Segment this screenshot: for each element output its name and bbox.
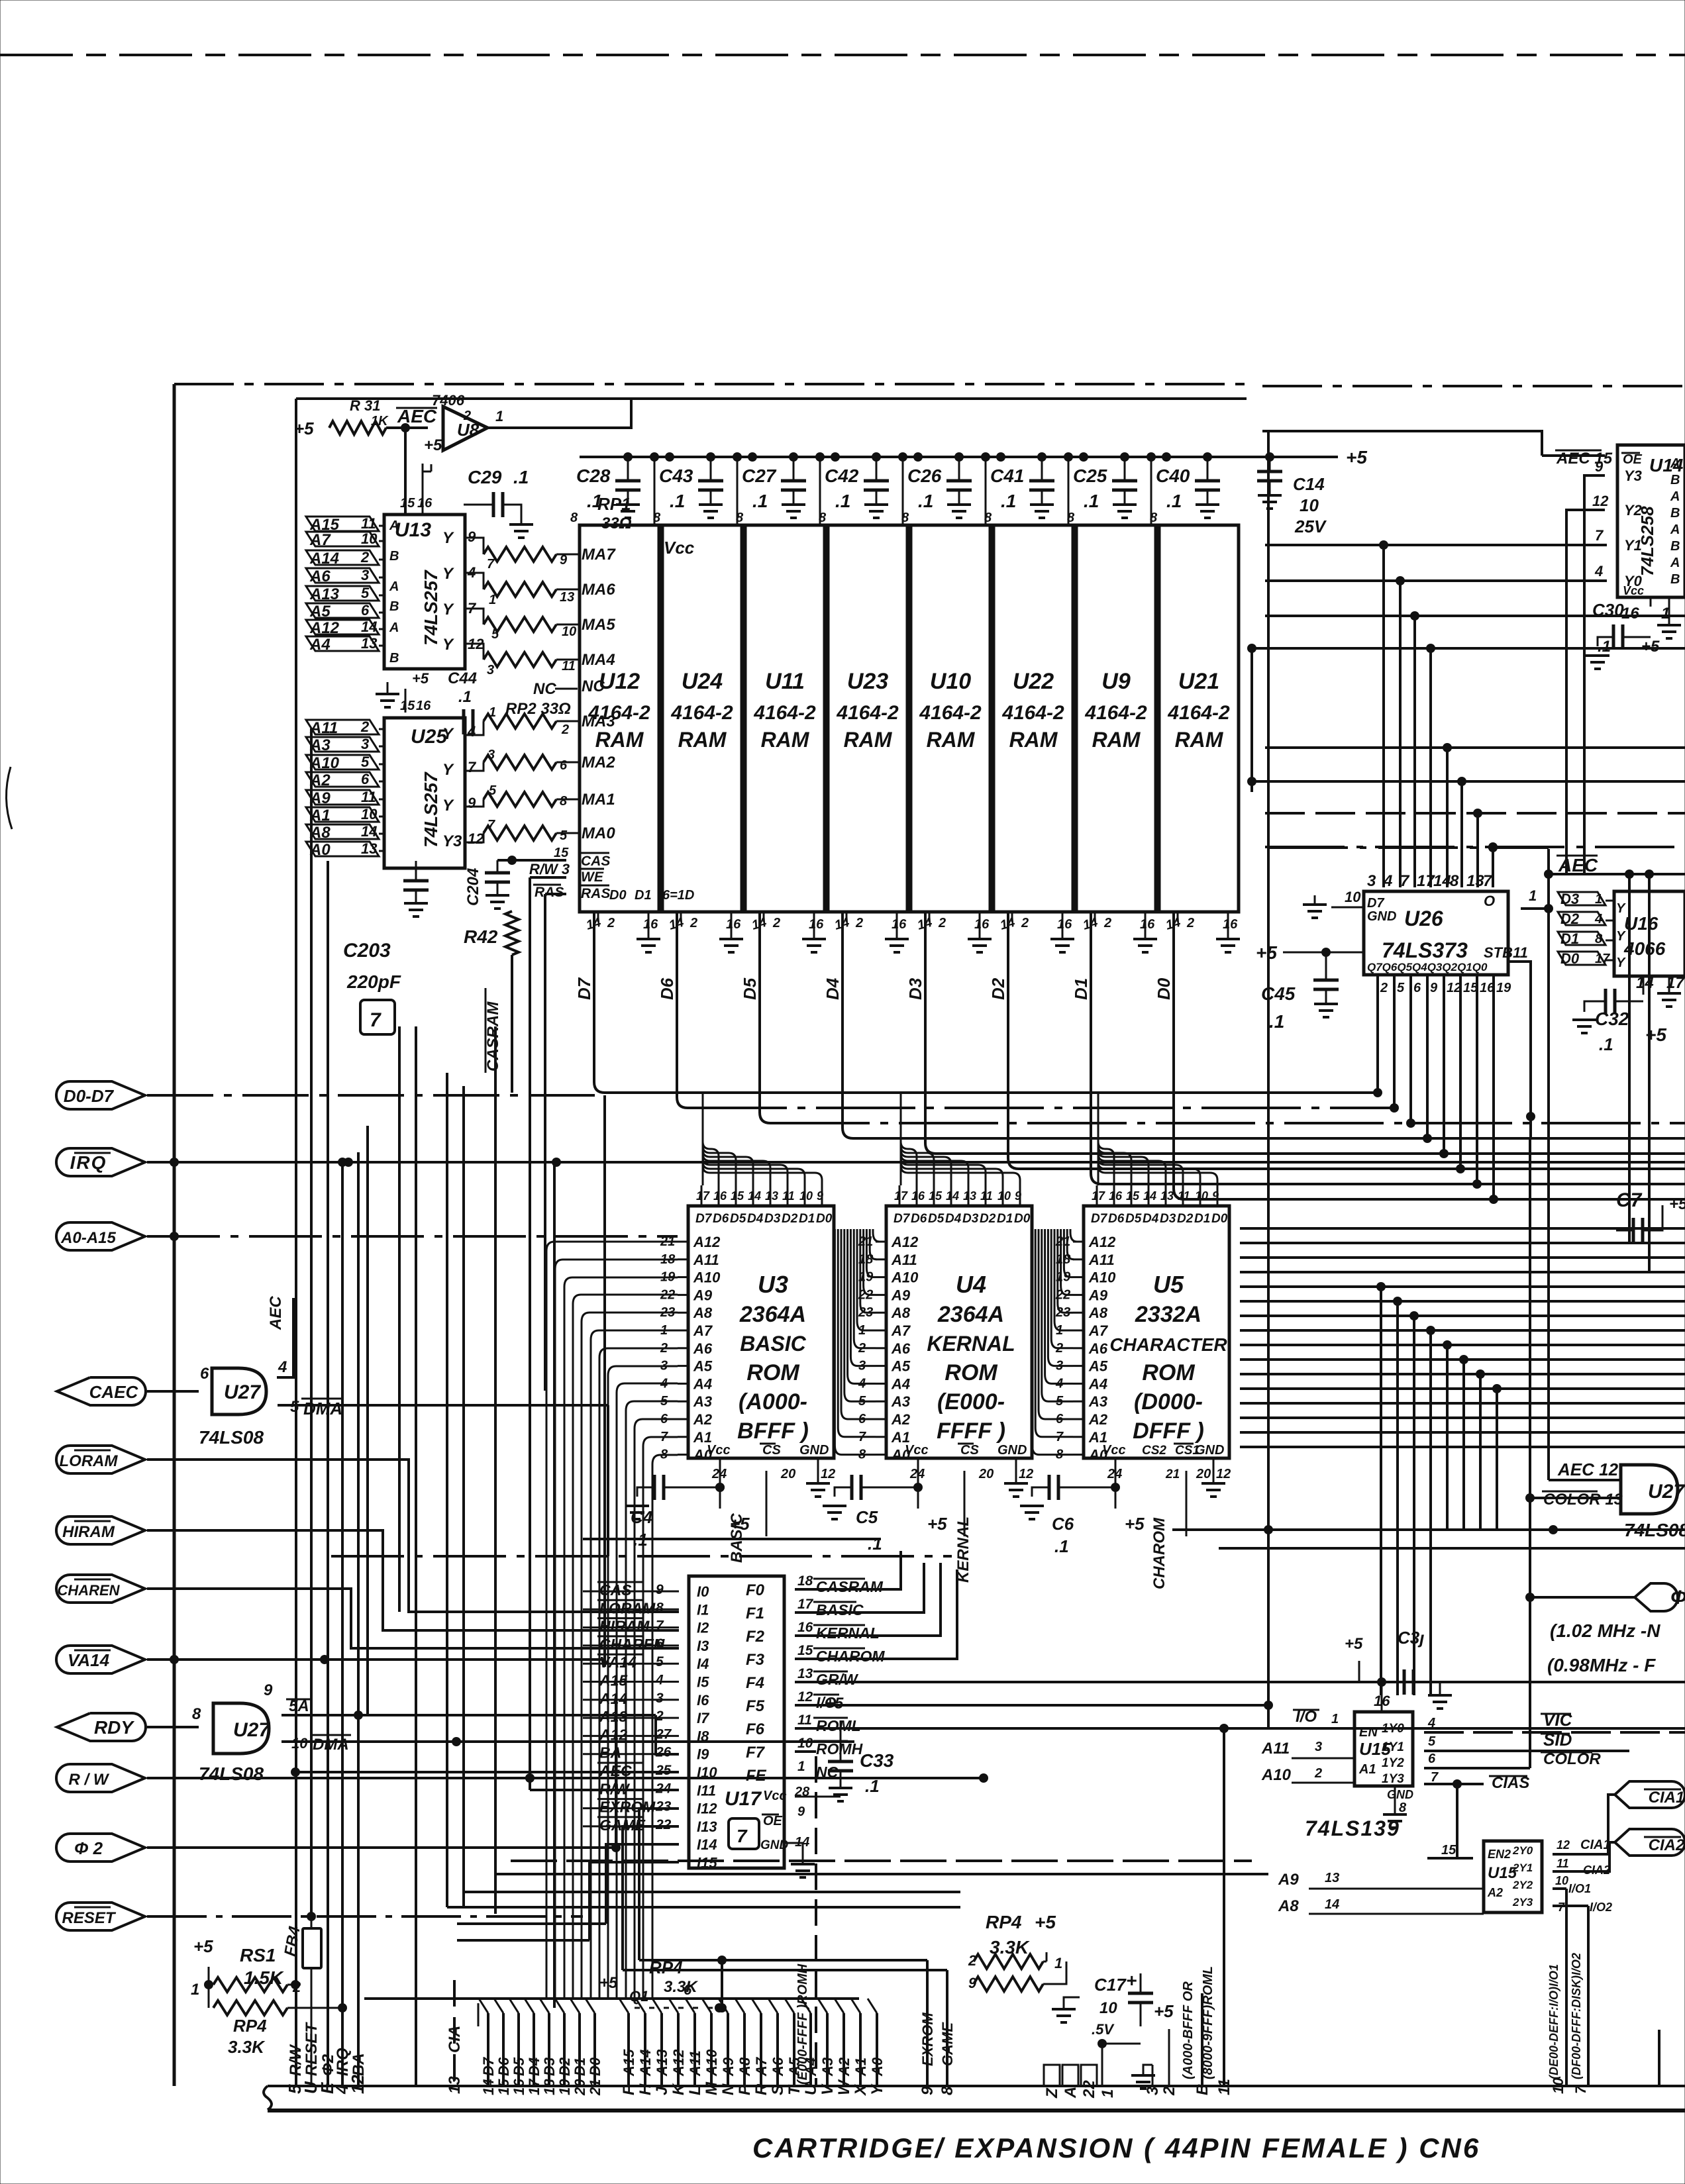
latch U26 74LS373 xyxy=(1364,891,1508,975)
svg-text:+5: +5 xyxy=(193,1936,213,1956)
svg-text:FFFF ): FFFF ) xyxy=(937,1418,1005,1444)
svg-text:4164-2: 4164-2 xyxy=(919,702,982,724)
svg-text:D0: D0 xyxy=(816,1212,833,1226)
U15 second half outputs CIA1 CIA2 I/O1 I/O2 xyxy=(1542,1849,1553,1860)
svg-text:C27: C27 xyxy=(742,466,777,486)
svg-text:AEC 12: AEC 12 xyxy=(1557,1460,1619,1479)
svg-text:I14: I14 xyxy=(697,1836,717,1853)
svg-text:C45: C45 xyxy=(1261,983,1296,1004)
svg-text:2: 2 xyxy=(360,549,370,566)
svg-text:.1: .1 xyxy=(513,467,529,487)
svg-text:21: 21 xyxy=(587,2079,603,2096)
svg-text:ROM: ROM xyxy=(746,1360,799,1385)
svg-text:27: 27 xyxy=(655,1726,672,1742)
svg-text:A9: A9 xyxy=(1278,1871,1299,1889)
svg-text:2: 2 xyxy=(1380,981,1388,995)
connector CN6 bar xyxy=(264,2086,1685,2110)
svg-text:8: 8 xyxy=(736,511,744,525)
signal flag CHAREN xyxy=(56,1575,145,1603)
svg-text:16: 16 xyxy=(1621,605,1639,622)
svg-text:10: 10 xyxy=(997,1189,1011,1203)
svg-text:.1: .1 xyxy=(1001,491,1016,511)
svg-text:I7: I7 xyxy=(697,1710,710,1726)
svg-text:3.3K: 3.3K xyxy=(228,2037,266,2057)
svg-text:D2: D2 xyxy=(782,1212,798,1226)
svg-text:(DE00-DEFF:I/O)I/O1: (DE00-DEFF:I/O)I/O1 xyxy=(1547,1964,1560,2079)
left frame vertical wire xyxy=(173,384,176,2086)
svg-text:+5: +5 xyxy=(424,436,442,454)
svg-text:3: 3 xyxy=(1367,872,1376,890)
svg-text:A8: A8 xyxy=(1278,1897,1299,1915)
svg-text:15: 15 xyxy=(400,699,415,713)
svg-text:RS1: RS1 xyxy=(240,1945,276,1965)
vertical bus wire RESET to connector xyxy=(311,1916,312,1932)
svg-text:A11: A11 xyxy=(1088,1252,1115,1268)
svg-text:D0: D0 xyxy=(1211,1212,1228,1226)
svg-text:A7: A7 xyxy=(753,2056,770,2077)
svg-text:GND: GND xyxy=(799,1443,829,1458)
svg-text:4164-2: 4164-2 xyxy=(1001,702,1064,724)
svg-text:4: 4 xyxy=(467,723,476,740)
svg-text:.1: .1 xyxy=(835,491,850,511)
svg-text:6=1D: 6=1D xyxy=(662,888,694,903)
svg-text:13: 13 xyxy=(1160,1189,1174,1203)
svg-text:MA4: MA4 xyxy=(582,651,615,669)
svg-text:13: 13 xyxy=(765,1189,778,1203)
wire WE into U12 xyxy=(530,876,566,879)
svg-text:5: 5 xyxy=(656,1654,664,1669)
svg-text:1: 1 xyxy=(1529,887,1537,904)
svg-text:EN2: EN2 xyxy=(1488,1848,1511,1861)
svg-text:8: 8 xyxy=(939,2086,956,2095)
svg-text:Vcc: Vcc xyxy=(707,1443,731,1458)
address fan bundle between U3 and U4 xyxy=(835,1229,880,1455)
svg-text:U11: U11 xyxy=(765,669,805,694)
ROM U5 2332A CHARACTER xyxy=(1055,1093,1231,1536)
svg-text:(D000-: (D000- xyxy=(1134,1389,1203,1415)
svg-text:16: 16 xyxy=(726,917,741,932)
vertical net labels R/W RESET PHI2 IRQ BA at connector xyxy=(287,2022,368,2076)
svg-text:I1: I1 xyxy=(697,1601,709,1618)
svg-text:R 31: R 31 xyxy=(350,397,380,414)
svg-text:A5: A5 xyxy=(1088,1358,1108,1375)
signal flag R/W xyxy=(56,1764,145,1792)
svg-text:AEC: AEC xyxy=(267,1296,285,1330)
svg-text:I15: I15 xyxy=(697,1855,717,1871)
svg-text:.1: .1 xyxy=(670,491,685,511)
svg-text:A13: A13 xyxy=(654,2050,670,2077)
svg-text:19: 19 xyxy=(1496,981,1511,995)
svg-text:D1: D1 xyxy=(799,1212,815,1226)
svg-text:21: 21 xyxy=(1165,1467,1180,1481)
svg-text:16: 16 xyxy=(511,2079,527,2095)
svg-text:25: 25 xyxy=(655,1763,672,1778)
svg-text:2: 2 xyxy=(855,916,863,930)
svg-text:R/W 3: R/W 3 xyxy=(529,861,570,877)
svg-text:3: 3 xyxy=(361,736,369,752)
RAM bottom pin numbers and grounds xyxy=(585,912,1240,952)
svg-text:D3: D3 xyxy=(962,1212,979,1226)
svg-text:RAS: RAS xyxy=(535,885,564,900)
svg-text:D3: D3 xyxy=(541,2058,558,2076)
svg-text:+5: +5 xyxy=(1645,1024,1666,1045)
address bus junction dots and vertical drops xyxy=(1376,1282,1502,1695)
svg-text:5: 5 xyxy=(560,828,568,843)
svg-text:C17: C17 xyxy=(1094,1975,1127,1995)
svg-text:2364A: 2364A xyxy=(937,1302,1004,1327)
svg-text:11: 11 xyxy=(361,515,376,532)
svg-text:2: 2 xyxy=(772,916,780,930)
svg-text:9: 9 xyxy=(264,1681,273,1699)
svg-text:16: 16 xyxy=(892,917,907,932)
svg-text:9: 9 xyxy=(1430,981,1438,995)
long wire y2324 xyxy=(583,1538,881,1540)
svg-text:R42: R42 xyxy=(464,926,498,947)
svg-text:I5: I5 xyxy=(697,1674,709,1691)
svg-text:12: 12 xyxy=(821,1467,835,1481)
svg-text:CIA1: CIA1 xyxy=(1580,1838,1611,1852)
svg-text:D1: D1 xyxy=(635,888,652,903)
svg-text:1: 1 xyxy=(1595,892,1602,907)
svg-text:A10: A10 xyxy=(309,754,340,772)
wire R/W xyxy=(147,1777,980,1779)
svg-text:16: 16 xyxy=(1140,917,1155,932)
svg-text:13: 13 xyxy=(1325,1871,1339,1885)
svg-text:2: 2 xyxy=(938,916,946,930)
ROM U3 2364A BASIC xyxy=(660,1093,835,1536)
svg-text:+5: +5 xyxy=(1154,2001,1174,2021)
svg-text:8: 8 xyxy=(901,511,909,525)
svg-text:A2: A2 xyxy=(836,2057,852,2077)
svg-text:I13: I13 xyxy=(697,1818,717,1835)
svg-text:D7: D7 xyxy=(574,977,594,1000)
svg-text:A11: A11 xyxy=(891,1252,917,1268)
U14 input letters A/B right edge xyxy=(1670,456,1680,587)
svg-text:12: 12 xyxy=(468,830,484,847)
wires left buses bend into U17 rows xyxy=(0,0,1,1)
svg-text:A6: A6 xyxy=(309,568,331,585)
svg-text:D7: D7 xyxy=(1091,1212,1108,1226)
svg-text:C25: C25 xyxy=(1073,466,1107,486)
wire U8 output to top rail xyxy=(487,399,631,428)
svg-text:8: 8 xyxy=(1450,872,1459,890)
svg-text:10: 10 xyxy=(1195,1189,1208,1203)
svg-text:5: 5 xyxy=(290,1398,299,1416)
svg-text:+5: +5 xyxy=(599,1974,618,1992)
svg-text:2364A: 2364A xyxy=(739,1302,806,1327)
svg-text:15: 15 xyxy=(731,1189,744,1203)
svg-text:8: 8 xyxy=(570,511,578,525)
svg-text:4066: 4066 xyxy=(1623,938,1666,959)
U17 input pins I0-I15 with labels xyxy=(583,1581,717,1871)
svg-text:22: 22 xyxy=(1080,2080,1098,2099)
svg-text:A8: A8 xyxy=(891,1305,911,1321)
svg-text:10: 10 xyxy=(562,624,576,639)
resistor RP4 3.3K (pin2) xyxy=(213,2001,287,2015)
wire RDY to U27b xyxy=(147,1726,199,1728)
svg-text:F1: F1 xyxy=(746,1605,764,1622)
svg-text:14: 14 xyxy=(1143,1189,1156,1203)
svg-text:MA2: MA2 xyxy=(582,754,615,771)
svg-text:.1: .1 xyxy=(752,491,768,511)
svg-text:5: 5 xyxy=(1428,1734,1436,1749)
svg-text:Y: Y xyxy=(442,797,454,815)
svg-text:14: 14 xyxy=(1636,974,1654,992)
svg-text:U3: U3 xyxy=(758,1271,788,1298)
svg-text:Y: Y xyxy=(1616,956,1626,970)
svg-text:1: 1 xyxy=(797,1759,805,1774)
svg-text:A10: A10 xyxy=(891,1269,919,1286)
svg-text:3: 3 xyxy=(1315,1740,1322,1754)
svg-text:16: 16 xyxy=(643,917,658,932)
svg-text:11: 11 xyxy=(562,659,576,673)
svg-text:A9: A9 xyxy=(1088,1287,1108,1303)
svg-text:EN: EN xyxy=(1359,1725,1378,1740)
svg-text:KERNAL: KERNAL xyxy=(927,1332,1015,1356)
svg-text:8: 8 xyxy=(1150,511,1158,525)
svg-text:12: 12 xyxy=(797,1689,813,1705)
svg-text:4164-2: 4164-2 xyxy=(836,702,899,724)
svg-text:1: 1 xyxy=(495,408,503,424)
svg-text:A1: A1 xyxy=(852,2058,869,2077)
svg-text:B: B xyxy=(1670,539,1680,554)
svg-text:ROML: ROML xyxy=(816,1717,861,1734)
svg-text:A14: A14 xyxy=(637,2050,654,2077)
svg-text:A4: A4 xyxy=(693,1375,712,1392)
svg-text:9: 9 xyxy=(560,553,568,568)
svg-text:(0.98MHz - F: (0.98MHz - F xyxy=(1547,1655,1656,1675)
svg-text:7: 7 xyxy=(468,759,477,775)
svg-text:A4: A4 xyxy=(1088,1375,1107,1392)
svg-text:Vcc: Vcc xyxy=(905,1443,929,1458)
svg-text:BASIC: BASIC xyxy=(816,1601,864,1618)
svg-text:GND: GND xyxy=(1367,909,1396,924)
svg-text:A11: A11 xyxy=(309,719,338,737)
svg-text:A3: A3 xyxy=(891,1393,910,1410)
svg-text:16: 16 xyxy=(713,1189,727,1203)
svg-text:Vcc: Vcc xyxy=(1102,1443,1126,1458)
svg-text:CASRAM: CASRAM xyxy=(484,1001,502,1071)
svg-text:RAM: RAM xyxy=(927,728,976,752)
svg-text:Φ 2: Φ 2 xyxy=(74,1838,103,1858)
svg-text:A7: A7 xyxy=(693,1322,713,1339)
svg-text:U21: U21 xyxy=(1178,669,1219,694)
svg-text:BASIC: BASIC xyxy=(740,1332,806,1356)
connector address pins A15-A0 (F-Y) xyxy=(619,1999,886,2097)
U25 input label stack A11/A3/A10/A2/A9/A1/A8/A0 xyxy=(306,719,384,859)
svg-text:6: 6 xyxy=(1413,981,1421,995)
svg-text:10: 10 xyxy=(1345,889,1361,905)
svg-text:WE: WE xyxy=(581,869,604,885)
capacitor C6 .1 and +5 at U5 xyxy=(1049,1475,1058,1500)
svg-text:8: 8 xyxy=(1595,932,1603,946)
svg-text:CHAROM: CHAROM xyxy=(1150,1517,1168,1589)
svg-text:(DF00-DFFF:DISK)I/O2: (DF00-DFFF:DISK)I/O2 xyxy=(1570,1953,1583,2079)
svg-text:U26: U26 xyxy=(1404,907,1443,930)
svg-text:14: 14 xyxy=(480,2079,497,2095)
svg-text:A10: A10 xyxy=(703,2049,720,2077)
svg-text:STB: STB xyxy=(1484,944,1513,961)
svg-text:15: 15 xyxy=(1441,1843,1456,1858)
svg-text:U24: U24 xyxy=(682,669,723,694)
svg-text:A13: A13 xyxy=(309,585,340,603)
svg-text:4: 4 xyxy=(1383,872,1392,890)
signal flag CIA2 xyxy=(1615,1829,1685,1856)
svg-text:7: 7 xyxy=(1595,527,1604,544)
svg-text:RDY: RDY xyxy=(94,1717,134,1738)
signal flag VA14 xyxy=(56,1646,145,1673)
svg-text:S: S xyxy=(769,2085,787,2095)
svg-text:8: 8 xyxy=(1399,1801,1407,1815)
svg-text:14: 14 xyxy=(748,1189,761,1203)
svg-text:4: 4 xyxy=(655,1673,664,1688)
svg-text:RESET: RESET xyxy=(303,2022,321,2076)
svg-text:.1: .1 xyxy=(1084,491,1099,511)
svg-text:I9: I9 xyxy=(697,1746,709,1763)
svg-text:CIA2: CIA2 xyxy=(1649,1836,1685,1854)
svg-text:F6: F6 xyxy=(746,1720,765,1738)
svg-text:D5: D5 xyxy=(511,2057,527,2076)
svg-text:C203: C203 xyxy=(343,940,391,962)
svg-text:Y: Y xyxy=(442,601,454,619)
svg-text:.1: .1 xyxy=(1598,638,1611,656)
U26 top pin numbers xyxy=(1367,872,1493,890)
svg-text:LORAM: LORAM xyxy=(60,1452,119,1470)
svg-text:D6: D6 xyxy=(911,1212,927,1226)
svg-text:OE: OE xyxy=(763,1814,783,1828)
schematic top dash-dot border (left page) xyxy=(174,383,1247,385)
svg-text:GND: GND xyxy=(1195,1443,1224,1458)
svg-text:13: 13 xyxy=(963,1189,976,1203)
svg-text:4164-2: 4164-2 xyxy=(670,702,733,724)
svg-text:CARTRIDGE/ EXPANSION ( 44PIN F: CARTRIDGE/ EXPANSION ( 44PIN FEMALE ) CN… xyxy=(752,2132,1480,2163)
svg-text:16: 16 xyxy=(974,917,990,932)
svg-text:11: 11 xyxy=(1557,1857,1569,1870)
svg-text:T: T xyxy=(786,2084,803,2095)
svg-text:RP4: RP4 xyxy=(986,1912,1022,1932)
svg-text:I11: I11 xyxy=(697,1782,716,1799)
svg-text:F4: F4 xyxy=(746,1674,764,1692)
svg-text:A3: A3 xyxy=(693,1393,712,1410)
svg-text:(A000-BFFF OR: (A000-BFFF OR xyxy=(1181,1981,1196,2079)
svg-text:12: 12 xyxy=(1019,1467,1033,1481)
svg-text:I4: I4 xyxy=(697,1656,709,1672)
vertical bus wire BA to connector xyxy=(357,1152,360,2086)
svg-text:D3: D3 xyxy=(1160,1212,1176,1226)
svg-text:D6: D6 xyxy=(1108,1212,1125,1226)
connector pins 5 C E 4 12 (control signals) xyxy=(285,2075,368,2095)
connector data pins D7-D0 (14-21) xyxy=(479,1999,603,2096)
svg-text:+5: +5 xyxy=(1256,942,1277,963)
U26 STB wire down xyxy=(1508,962,1531,1139)
svg-text:A9: A9 xyxy=(720,2057,737,2077)
svg-text:16: 16 xyxy=(1223,917,1238,932)
svg-text:V: V xyxy=(819,2083,837,2095)
svg-text:.1: .1 xyxy=(587,491,602,511)
svg-text:A9: A9 xyxy=(891,1287,911,1303)
wire I/O from U17 to U15 xyxy=(1268,1705,1269,1728)
svg-text:F3: F3 xyxy=(746,1651,765,1669)
page curl mark left edge xyxy=(6,767,12,829)
svg-text:7: 7 xyxy=(487,818,495,832)
svg-text:17: 17 xyxy=(526,2078,542,2095)
svg-text:D7: D7 xyxy=(1367,896,1384,911)
svg-text:3: 3 xyxy=(487,748,495,762)
svg-text:A: A xyxy=(1670,556,1680,570)
svg-text:5: 5 xyxy=(491,627,499,642)
svg-text:RAS: RAS xyxy=(581,886,610,901)
svg-text:A0-A15: A0-A15 xyxy=(60,1229,116,1247)
svg-text:D5: D5 xyxy=(1125,1212,1142,1226)
svg-text:1Y0: 1Y0 xyxy=(1382,1722,1404,1736)
svg-text:8: 8 xyxy=(192,1705,201,1723)
svg-text:FE: FE xyxy=(746,1767,767,1785)
svg-text:9: 9 xyxy=(468,795,476,811)
electrolytic capacitor C14 10uF 25V with +5 xyxy=(1270,456,1288,458)
wire RAS into U12 xyxy=(545,893,566,895)
U17 output pins F0-F7 FE with net labels xyxy=(746,1573,885,1785)
svg-text:D2: D2 xyxy=(556,2057,573,2076)
svg-text:D0: D0 xyxy=(1154,977,1174,1000)
svg-text:5: 5 xyxy=(361,585,370,601)
svg-text:22: 22 xyxy=(655,1817,672,1832)
svg-text:8: 8 xyxy=(560,794,568,809)
svg-text:RAM: RAM xyxy=(844,728,893,752)
svg-text:D4: D4 xyxy=(747,1212,764,1226)
svg-text:A12: A12 xyxy=(670,2049,687,2077)
svg-text:IRQ: IRQ xyxy=(334,2048,352,2076)
svg-text:.1: .1 xyxy=(1599,1034,1613,1054)
U15 first half outputs VIC SID COLOR CIAS xyxy=(1413,1727,1424,1738)
wire R/W to U17 I11 xyxy=(530,1789,679,1791)
svg-text:U10: U10 xyxy=(930,669,971,694)
svg-text:Vcc: Vcc xyxy=(664,538,695,558)
svg-text:11: 11 xyxy=(1513,944,1528,961)
svg-text:16: 16 xyxy=(911,1189,925,1203)
svg-text:KERNAL: KERNAL xyxy=(816,1624,880,1642)
svg-text:A11: A11 xyxy=(1261,1740,1290,1758)
svg-text:4164-2: 4164-2 xyxy=(1167,702,1230,724)
svg-text:AEC: AEC xyxy=(397,406,437,426)
svg-text:6: 6 xyxy=(361,602,370,619)
svg-text:GND: GND xyxy=(760,1838,789,1852)
svg-text:12: 12 xyxy=(1216,1467,1231,1481)
svg-text:16: 16 xyxy=(416,699,431,713)
svg-text:U13: U13 xyxy=(395,519,431,541)
svg-text:C44: C44 xyxy=(448,670,477,687)
svg-text:Vcc: Vcc xyxy=(1623,584,1644,597)
svg-text:16: 16 xyxy=(1109,1189,1123,1203)
svg-text:D5: D5 xyxy=(928,1212,945,1226)
svg-text:2: 2 xyxy=(561,722,569,737)
svg-text:.5V: .5V xyxy=(1092,2021,1115,2038)
svg-text:Y: Y xyxy=(442,529,454,547)
wire A0-A15 bus dash-dot xyxy=(147,1235,678,1238)
ground at U26 pin10 xyxy=(1314,895,1316,905)
svg-text:H: H xyxy=(637,2083,654,2095)
svg-text:15: 15 xyxy=(929,1189,943,1203)
svg-text:A12: A12 xyxy=(693,1234,721,1250)
wire VA14 xyxy=(147,1658,605,1661)
svg-text:CASRAM: CASRAM xyxy=(816,1578,884,1595)
svg-text:D5: D5 xyxy=(740,977,760,1000)
svg-text:Y: Y xyxy=(1616,929,1626,944)
long wire y2310 lower right xyxy=(1172,1528,1685,1531)
svg-text:Y: Y xyxy=(442,761,454,779)
capacitor C32 .1 with +5 xyxy=(1606,989,1615,1014)
long dash-dot wire y2350 xyxy=(331,1555,952,1558)
svg-text:D7: D7 xyxy=(894,1212,911,1226)
